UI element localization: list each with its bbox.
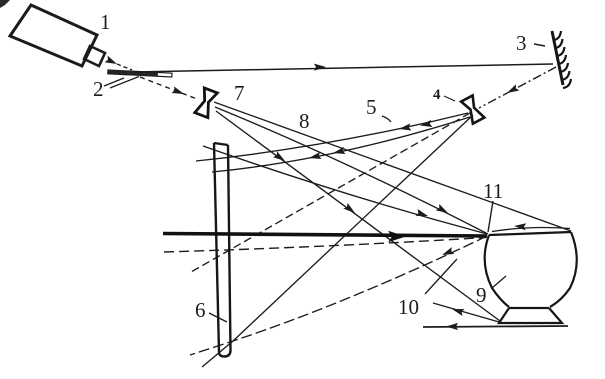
beam 5a: from lens 4 down-left xyxy=(196,113,468,161)
beam F1: lens7 to vase top-right corner xyxy=(214,102,571,231)
beam F3: lens7 to vase foot xyxy=(216,111,500,321)
label 11 pointer xyxy=(488,201,493,232)
beamsplitter 2 (plate) xyxy=(108,70,172,77)
beam mirror to lens 4 (dash-dot) xyxy=(479,67,556,108)
beam: focus point to plate bottom (dashed) xyxy=(190,236,487,355)
svg-text:2: 2 xyxy=(93,77,104,101)
ground line with left arrow xyxy=(423,326,568,327)
dashed beam to focus point xyxy=(164,238,486,253)
svg-text:11: 11 xyxy=(483,179,503,203)
beam dashed diagonal: lens4 to lower-left xyxy=(191,113,470,272)
laser 1 (body) xyxy=(10,5,97,66)
label 2 pointer b xyxy=(110,77,139,89)
label 9 pointer xyxy=(492,276,506,288)
beam A: plate top to focus point xyxy=(203,146,487,234)
beam reflected along rim (left arrow) xyxy=(492,228,570,232)
mirror 3 xyxy=(552,31,571,88)
svg-text:9: 9 xyxy=(476,283,487,307)
laser nozzle xyxy=(84,46,105,66)
lens 4 (biconcave bowtie) xyxy=(461,95,484,123)
label 3 dash xyxy=(534,44,545,46)
beam beamsplitter to lens 7 (dashed) xyxy=(140,77,197,99)
svg-text:5: 5 xyxy=(366,95,377,119)
svg-text:6: 6 xyxy=(195,298,206,322)
label 6 pointer xyxy=(209,313,227,322)
svg-text:3: 3 xyxy=(516,31,527,55)
beam 5b: from lens 4 down-left lower xyxy=(212,117,470,172)
scan corner mark xyxy=(0,0,10,8)
svg-text:8: 8 xyxy=(299,109,310,133)
label 10 pointer xyxy=(425,259,457,294)
vase 9 (spherical flask) xyxy=(485,232,577,323)
beam out (short, above ground) xyxy=(433,303,499,322)
beam F2: lens7 to focus point 11 xyxy=(215,107,488,234)
label 4 dash xyxy=(444,96,455,101)
beam steep: lens4 to plate bottom xyxy=(202,115,473,367)
svg-text:1: 1 xyxy=(100,10,111,34)
thick beam to focus point xyxy=(163,234,487,237)
svg-text:10: 10 xyxy=(398,295,419,319)
plate 6 (screen) xyxy=(214,143,231,357)
svg-text:4: 4 xyxy=(433,87,441,103)
label 5 pointer xyxy=(382,116,391,122)
label 2 pointer a xyxy=(104,78,124,86)
beam beamsplitter to mirror xyxy=(133,64,553,72)
beam laser to beamsplitter (dashed) xyxy=(117,64,132,70)
svg-text:7: 7 xyxy=(234,81,245,105)
lens 7 (biconcave bowtie) xyxy=(195,88,218,118)
